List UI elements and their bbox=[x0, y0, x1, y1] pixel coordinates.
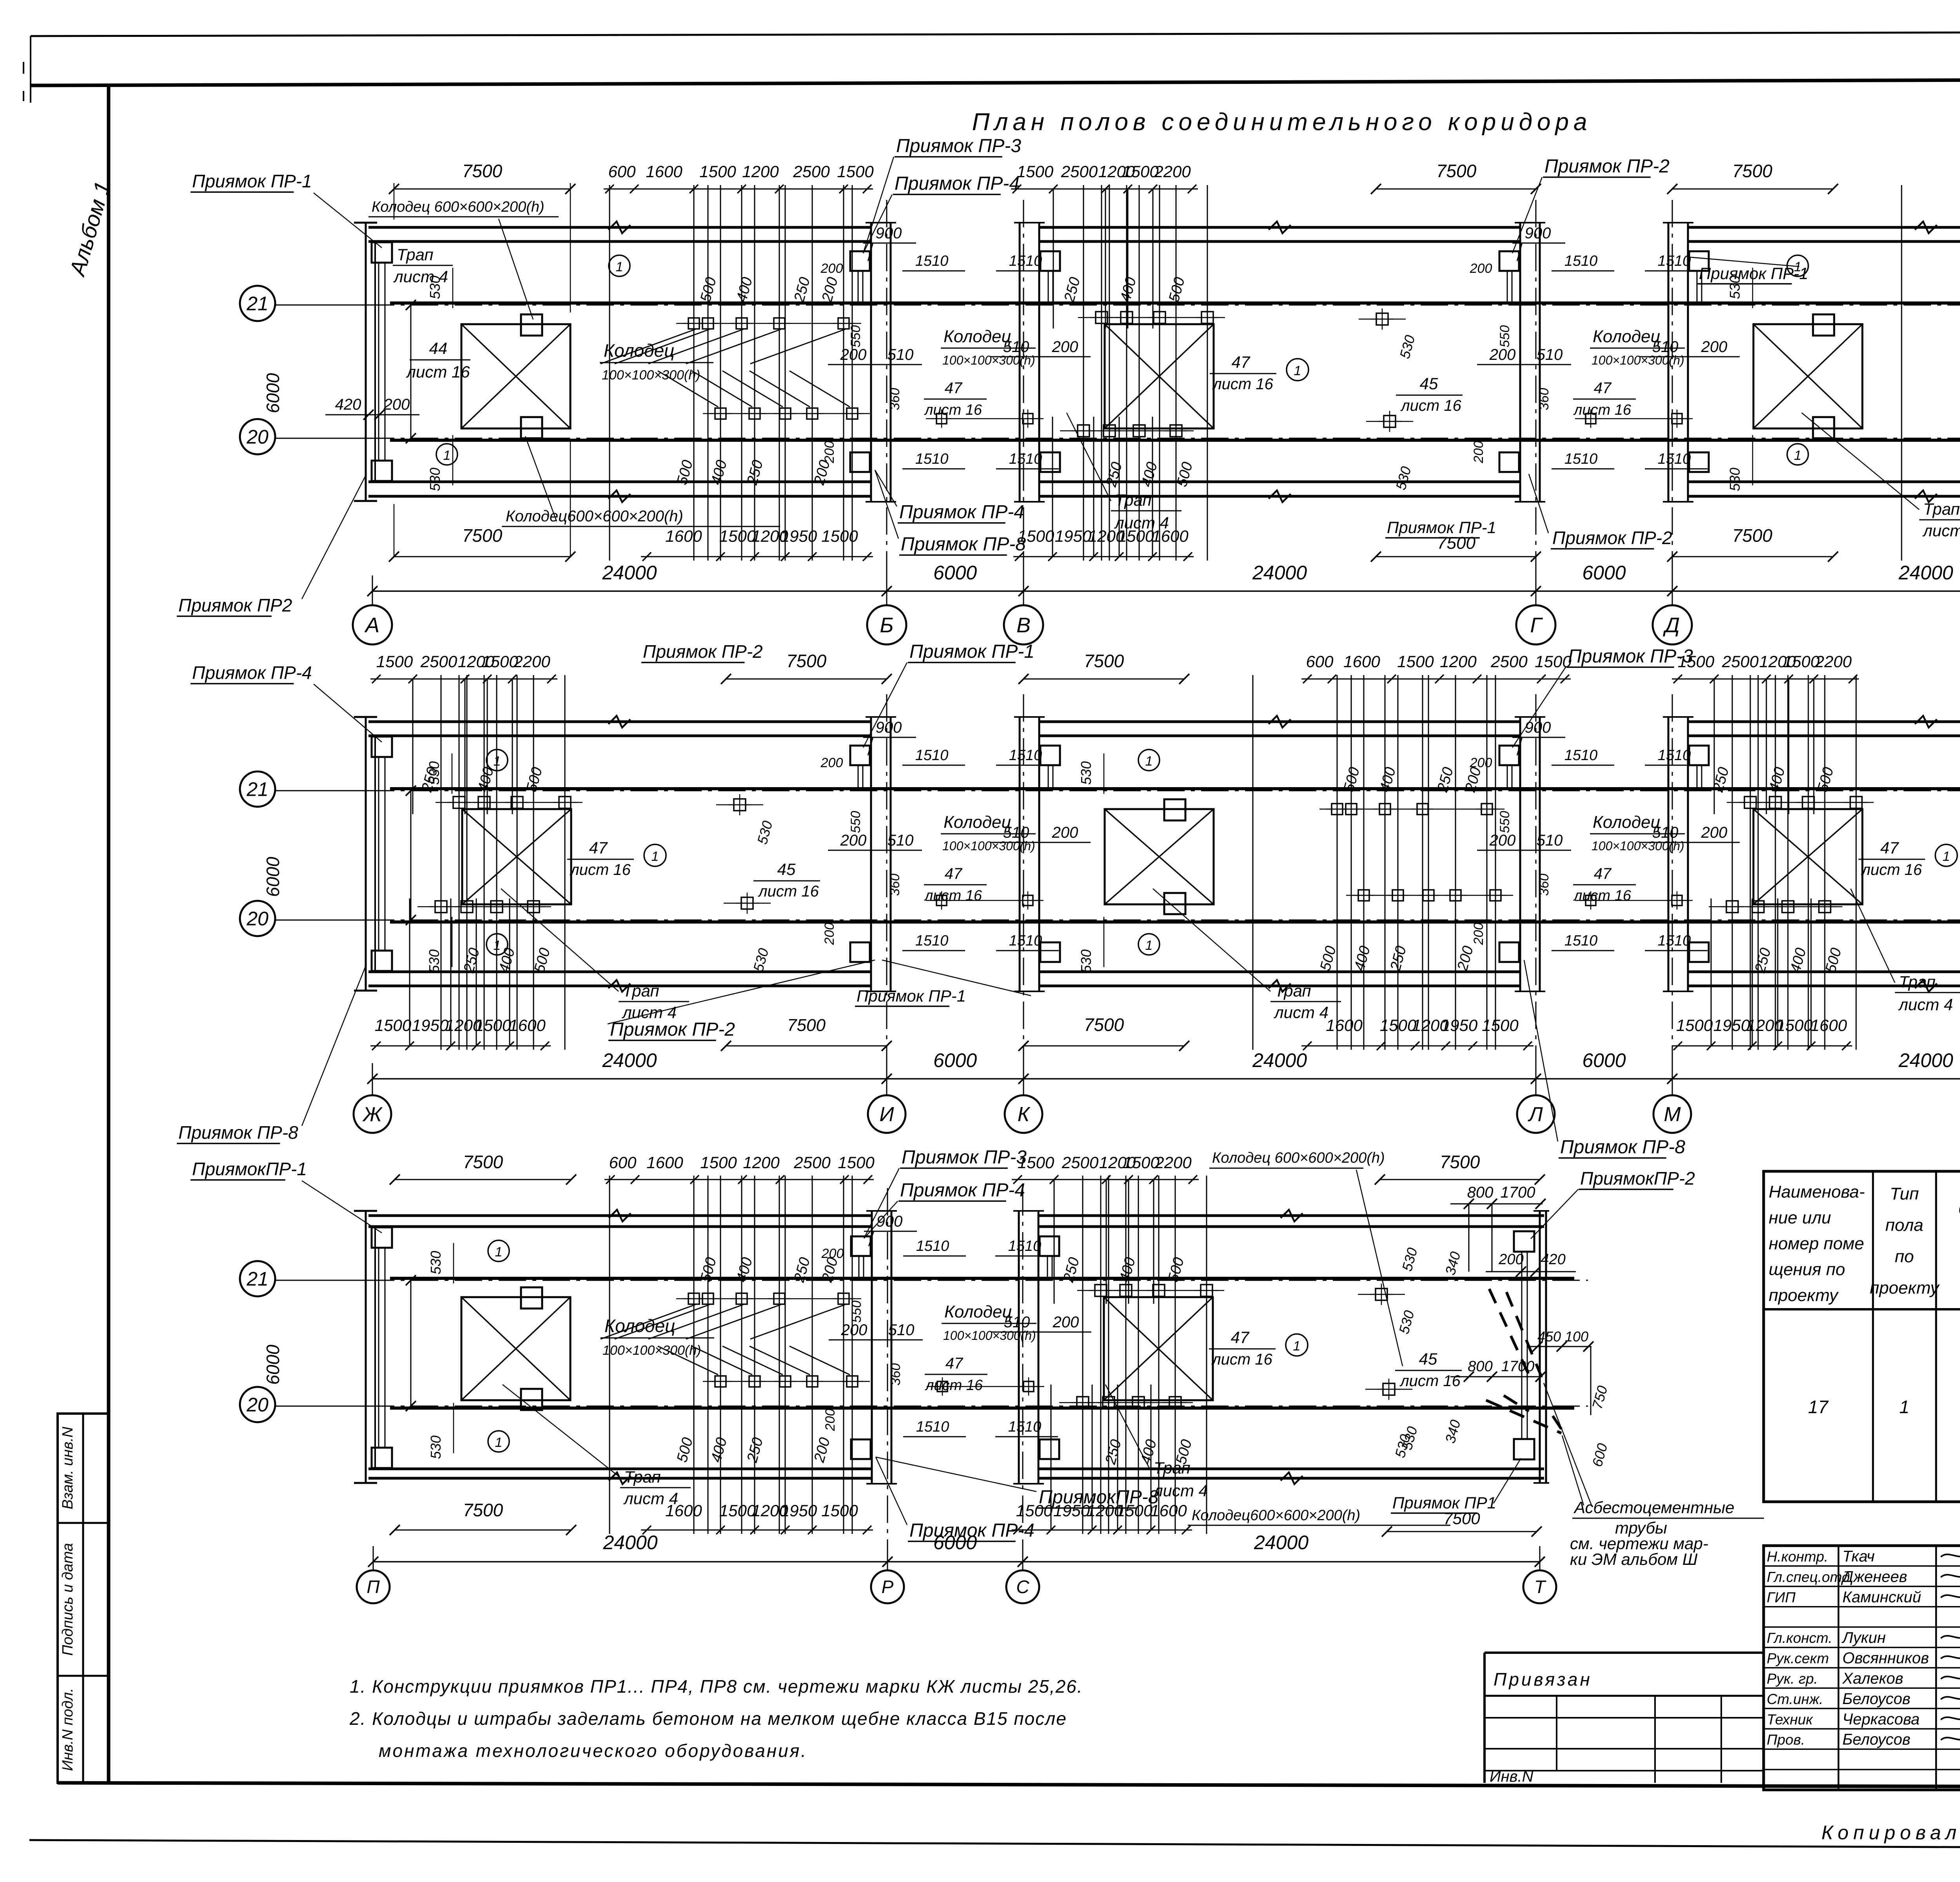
circled 1 mark bottom bbox=[1138, 934, 1160, 955]
leader fan to kolodec label upper bbox=[601, 1305, 695, 1339]
svg-text:проекту: проекту bbox=[1870, 1278, 1940, 1298]
grid axis circle 20 bbox=[240, 1387, 275, 1422]
svg-text:200: 200 bbox=[820, 755, 843, 770]
svg-text:24000: 24000 bbox=[1252, 562, 1307, 584]
svg-text:1500: 1500 bbox=[1118, 527, 1154, 545]
kolodec squares pair in crossing bbox=[1586, 895, 1596, 906]
axis 21 dash-dot centerline bbox=[279, 305, 1960, 306]
strip1 top small chain bay V bbox=[1011, 189, 1198, 190]
kolodec square on pit top edge bbox=[1164, 799, 1185, 820]
svg-text:100×100×300(h): 100×100×300(h) bbox=[603, 1343, 701, 1358]
svg-text:7500: 7500 bbox=[1732, 525, 1773, 546]
svg-text:лист 16: лист 16 bbox=[925, 1377, 983, 1394]
svg-text:Приямок ПР-1: Приямок ПР-1 bbox=[1699, 264, 1808, 283]
kolodec squares pair in crossing bbox=[936, 414, 947, 424]
svg-text:Привязан: Привязан bbox=[1494, 1669, 1592, 1690]
corridor south outer wall double line bbox=[1689, 481, 1960, 483]
svg-text:360: 360 bbox=[888, 1363, 903, 1386]
svg-text:1500: 1500 bbox=[1678, 652, 1715, 671]
svg-text:550: 550 bbox=[1497, 811, 1512, 833]
svg-text:2200: 2200 bbox=[1154, 1153, 1192, 1172]
kolodec square pair 530 lower bbox=[1384, 416, 1396, 427]
svg-text:900: 900 bbox=[1525, 719, 1551, 736]
strip2 bottom chain mid bbox=[1301, 1045, 1534, 1047]
circled 1 mark top bbox=[486, 750, 508, 771]
svg-text:Приямок ПР-4: Приямок ПР-4 bbox=[895, 173, 1020, 194]
svg-text:Колодец: Колодец bbox=[604, 340, 675, 361]
grid axis circle Ж bbox=[354, 1095, 391, 1133]
svg-text:1510: 1510 bbox=[916, 1238, 949, 1254]
grid axis circle 21 bbox=[240, 286, 275, 321]
circled 1 mark bottom bbox=[486, 934, 508, 955]
svg-text:Р: Р bbox=[882, 1577, 894, 1597]
svg-text:Приямок ПР-4: Приямок ПР-4 bbox=[899, 502, 1024, 523]
svg-text:лист 16: лист 16 bbox=[405, 363, 470, 381]
wall face line on axis 21 bbox=[390, 301, 1960, 305]
priamok square at wall bottom bbox=[850, 942, 870, 962]
west end wall bbox=[365, 223, 367, 501]
svg-text:530: 530 bbox=[1727, 468, 1743, 491]
strip1 top dim 7500 before G bbox=[1376, 189, 1536, 190]
svg-text:2200: 2200 bbox=[1154, 162, 1191, 181]
transverse greenhouse wall at axis x=3918 bbox=[1519, 223, 1521, 502]
svg-text:6000: 6000 bbox=[263, 857, 283, 897]
privyazan table bbox=[1485, 1652, 1764, 1654]
strip3 bottom chain bay P bbox=[641, 1530, 873, 1531]
svg-text:1510: 1510 bbox=[1008, 1419, 1042, 1435]
svg-text:550: 550 bbox=[848, 325, 863, 348]
grid axis circle Р bbox=[871, 1570, 904, 1603]
svg-text:7500: 7500 bbox=[1084, 1015, 1124, 1035]
svg-text:900: 900 bbox=[876, 719, 902, 736]
vertical dim 6000 between axes 21 20 bbox=[410, 1280, 412, 1406]
svg-text:1500: 1500 bbox=[1017, 162, 1054, 181]
svg-text:2200: 2200 bbox=[1815, 652, 1852, 671]
strip2 top chain bay M bbox=[1672, 679, 1859, 680]
svg-text:24000: 24000 bbox=[1254, 1532, 1308, 1554]
svg-text:Ж: Ж bbox=[362, 1103, 383, 1126]
svg-text:1: 1 bbox=[494, 754, 501, 769]
svg-text:Рук.сект: Рук.сект bbox=[1767, 1650, 1829, 1666]
svg-text:2500: 2500 bbox=[1062, 1153, 1099, 1172]
svg-text:лист 16: лист 16 bbox=[1861, 861, 1922, 878]
axis 20 dash-dot centerline bbox=[279, 920, 1960, 921]
svg-text:Тип: Тип bbox=[1890, 1184, 1919, 1203]
signature squiggle bbox=[1941, 1736, 1960, 1740]
axis 20 leader from circle bbox=[275, 438, 368, 439]
trap square upper west bbox=[372, 242, 392, 263]
svg-text:1: 1 bbox=[1794, 448, 1802, 463]
strip3 top dim 7500 bay P bbox=[395, 1179, 571, 1180]
priamok square at wall bottom bbox=[1040, 452, 1060, 472]
svg-text:Колодец 600×600×200(h): Колодец 600×600×200(h) bbox=[372, 199, 544, 215]
svg-text:17: 17 bbox=[1808, 1397, 1829, 1417]
kolodec squares pair in crossing bbox=[936, 895, 947, 906]
svg-text:Взам. инв.N: Взам. инв.N bbox=[60, 1426, 76, 1509]
kolodec small squares row upper bbox=[1332, 804, 1343, 815]
svg-text:Приямок ПР-8: Приямок ПР-8 bbox=[1560, 1137, 1685, 1158]
svg-text:200: 200 bbox=[1489, 346, 1516, 363]
svg-text:100×100×300(h): 100×100×300(h) bbox=[602, 368, 700, 383]
kolodec small squares row upper bbox=[688, 318, 699, 329]
axis witness line to circle bbox=[372, 575, 373, 605]
corridor south outer wall double line bbox=[1040, 481, 1519, 483]
circled 1 mark top bbox=[1787, 255, 1808, 276]
svg-text:900: 900 bbox=[1525, 225, 1551, 242]
svg-text:1: 1 bbox=[1145, 754, 1153, 769]
svg-text:600: 600 bbox=[1306, 652, 1334, 671]
pit crossed box (priyamok) bbox=[461, 1297, 570, 1400]
left edge tick marks bbox=[30, 36, 31, 103]
svg-text:7500: 7500 bbox=[1436, 161, 1477, 181]
strip3 top chain bay S bbox=[1012, 1179, 1199, 1180]
svg-text:Белоусов: Белоусов bbox=[1842, 1690, 1911, 1708]
signature squiggle bbox=[1941, 1634, 1960, 1638]
kolodec small squares row lower bbox=[715, 1376, 726, 1387]
kolodec small squares on pit top edge bbox=[1095, 1285, 1107, 1296]
svg-text:Трап: Трап bbox=[1154, 1459, 1191, 1477]
svg-text:47: 47 bbox=[1880, 838, 1899, 857]
svg-text:1: 1 bbox=[616, 260, 623, 274]
strip1 bottom chain bay V bbox=[1013, 556, 1194, 557]
wall face line on axis 20 bbox=[390, 920, 1960, 924]
svg-text:ГИП: ГИП bbox=[1767, 1589, 1796, 1605]
priamok square at wall top bbox=[1499, 251, 1519, 271]
svg-text:1: 1 bbox=[1293, 1339, 1301, 1354]
svg-text:1600: 1600 bbox=[1150, 1501, 1187, 1520]
svg-text:45: 45 bbox=[1420, 374, 1438, 393]
svg-text:1700: 1700 bbox=[1501, 1184, 1535, 1201]
svg-text:Приямок ПР-2: Приямок ПР-2 bbox=[1544, 156, 1670, 177]
overall dimension line bbox=[372, 1078, 1960, 1080]
corridor south outer wall double line bbox=[368, 481, 870, 483]
svg-text:1500: 1500 bbox=[838, 1153, 875, 1172]
svg-text:1500: 1500 bbox=[1123, 1153, 1160, 1172]
trap square lower west bbox=[372, 951, 392, 971]
kolodec squares pair in crossing bbox=[1586, 414, 1596, 424]
strip3 bottom dim 7500 bay P bbox=[395, 1530, 571, 1531]
svg-text:1500: 1500 bbox=[700, 1153, 737, 1172]
witness vertical lines through corridor bbox=[1901, 185, 1902, 561]
svg-text:1500: 1500 bbox=[1380, 1016, 1417, 1034]
witness verticals type B bay bbox=[1101, 185, 1102, 561]
svg-text:1950: 1950 bbox=[1055, 527, 1092, 545]
svg-text:1600: 1600 bbox=[1152, 527, 1189, 545]
sheet outer top edge line bbox=[31, 31, 1960, 36]
strip3 east end wall bbox=[1539, 1211, 1541, 1483]
svg-text:1: 1 bbox=[1145, 938, 1153, 953]
svg-text:1510: 1510 bbox=[1564, 451, 1598, 467]
strip3 east trap square upper bbox=[1514, 1231, 1534, 1252]
corridor north outer wall double line bbox=[1689, 226, 1960, 229]
svg-text:200: 200 bbox=[383, 396, 410, 413]
corridor north outer wall double line bbox=[368, 1214, 871, 1217]
axis 20 leader from circle bbox=[275, 920, 368, 921]
svg-text:21: 21 bbox=[246, 779, 269, 800]
svg-text:1500: 1500 bbox=[1676, 1016, 1713, 1034]
corridor north outer wall double line bbox=[368, 226, 870, 229]
svg-text:550: 550 bbox=[1497, 325, 1512, 348]
west end wall bbox=[365, 717, 367, 991]
transverse greenhouse wall at axis x=4266 bbox=[1668, 223, 1670, 502]
priamok square at wall bottom bbox=[1499, 452, 1519, 472]
kolodec square on pit top edge bbox=[521, 1287, 542, 1309]
vertical dim 6000 between axes 21 20 bbox=[410, 305, 412, 438]
svg-text:Колодец: Колодец bbox=[604, 1316, 675, 1336]
sheet bottom outer edge line bbox=[29, 1840, 1960, 1849]
axis witness line to circle bbox=[1022, 1546, 1024, 1570]
grid axis circle К bbox=[1005, 1095, 1042, 1133]
svg-text:лист 4: лист 4 bbox=[393, 267, 448, 286]
corridor north outer wall double line bbox=[1040, 226, 1519, 229]
svg-text:Приямок ПР2: Приямок ПР2 bbox=[178, 595, 292, 615]
svg-text:200: 200 bbox=[1470, 261, 1492, 276]
left margin stamp boxes bbox=[58, 1414, 109, 1783]
svg-text:1200: 1200 bbox=[742, 162, 779, 181]
svg-text:1600: 1600 bbox=[646, 1153, 683, 1172]
priamok square at wall bottom bbox=[1499, 942, 1519, 962]
witness vertical lines through corridor bbox=[1252, 675, 1254, 1050]
strip1 bottom chain bay A bbox=[641, 556, 873, 557]
axis witness line to circle bbox=[373, 1546, 374, 1570]
priamok square at wall bottom bbox=[1689, 942, 1709, 962]
priamok square at wall top bbox=[1499, 746, 1519, 765]
strip3 east trap stem double line bbox=[1521, 1252, 1523, 1439]
svg-text:47: 47 bbox=[589, 838, 608, 857]
svg-text:ки ЭМ альбом Ш: ки ЭМ альбом Ш bbox=[1570, 1550, 1698, 1568]
kolodec square on pit bottom edge bbox=[1164, 893, 1185, 914]
trap square upper west bbox=[372, 1227, 392, 1248]
svg-text:Колодец600×600×200(h): Колодец600×600×200(h) bbox=[1192, 1507, 1360, 1524]
svg-text:Приямок ПР-2: Приямок ПР-2 bbox=[610, 1019, 735, 1040]
svg-text:1510: 1510 bbox=[1008, 1238, 1042, 1254]
svg-text:200: 200 bbox=[1701, 338, 1728, 356]
svg-text:Рук. гр.: Рук. гр. bbox=[1767, 1671, 1818, 1687]
svg-text:1500: 1500 bbox=[1783, 652, 1820, 671]
grid axis circle И bbox=[868, 1095, 906, 1133]
svg-text:Колодец: Колодец bbox=[944, 813, 1011, 832]
svg-text:1500: 1500 bbox=[837, 162, 874, 181]
svg-text:530: 530 bbox=[428, 1436, 444, 1459]
kolodec square pair 530 upper bbox=[1376, 313, 1388, 325]
svg-text:45: 45 bbox=[1419, 1350, 1437, 1368]
svg-text:7500: 7500 bbox=[463, 1500, 503, 1520]
svg-text:200: 200 bbox=[820, 261, 843, 276]
grid axis circle 20 bbox=[240, 901, 275, 936]
corridor south outer wall double line bbox=[1040, 971, 1519, 973]
circled 1 mark bottom bbox=[1787, 444, 1808, 465]
kolodec square on pit top edge bbox=[1813, 314, 1834, 336]
svg-text:550: 550 bbox=[849, 1301, 864, 1323]
svg-text:Наименова-: Наименова- bbox=[1769, 1182, 1865, 1201]
svg-text:Приямок ПР-8: Приямок ПР-8 bbox=[178, 1122, 298, 1143]
svg-text:1510: 1510 bbox=[1658, 451, 1691, 467]
corridor north outer wall double line bbox=[1039, 1214, 1544, 1217]
svg-text:1510: 1510 bbox=[915, 747, 949, 764]
axis 21 leader from circle bbox=[275, 790, 368, 791]
svg-text:Трап: Трап bbox=[1899, 973, 1936, 991]
svg-text:200: 200 bbox=[1053, 1314, 1079, 1331]
svg-text:360: 360 bbox=[1537, 874, 1552, 896]
svg-text:7500: 7500 bbox=[1732, 161, 1773, 181]
wall face line on axis 21 bbox=[390, 787, 1960, 790]
kolodec square pair 530 lower bbox=[741, 897, 753, 909]
svg-text:200: 200 bbox=[1701, 824, 1728, 841]
svg-text:Л: Л bbox=[1528, 1103, 1543, 1126]
svg-text:Н.контр.: Н.контр. bbox=[1767, 1548, 1828, 1564]
svg-text:Каминский: Каминский bbox=[1842, 1588, 1921, 1606]
priamok square at wall top bbox=[850, 251, 870, 271]
svg-text:6000: 6000 bbox=[1582, 1049, 1626, 1071]
svg-text:510: 510 bbox=[887, 346, 914, 363]
svg-text:530: 530 bbox=[428, 1251, 444, 1274]
grid axis circle В bbox=[1004, 605, 1043, 644]
witness verticals type B bay bbox=[1750, 675, 1751, 1050]
svg-text:Приямок ПР-4: Приямок ПР-4 bbox=[900, 1180, 1025, 1201]
svg-text:360: 360 bbox=[887, 874, 902, 896]
svg-text:1500: 1500 bbox=[719, 1501, 756, 1520]
axis 21 leader from circle bbox=[275, 1280, 368, 1281]
svg-text:200: 200 bbox=[1052, 824, 1078, 841]
wall face line on axis 20 bbox=[390, 439, 1960, 442]
svg-text:1: 1 bbox=[494, 938, 501, 953]
svg-text:550: 550 bbox=[848, 811, 863, 833]
kolodec square on pit bottom edge bbox=[521, 1389, 542, 1410]
overall dimension line bbox=[373, 1561, 1540, 1563]
svg-text:Приямок ПР-3: Приямок ПР-3 bbox=[902, 1147, 1027, 1168]
svg-text:Трап: Трап bbox=[622, 982, 659, 1000]
priamok square at wall top bbox=[1040, 1236, 1059, 1256]
svg-text:1510: 1510 bbox=[915, 253, 949, 269]
svg-text:Колодец: Колодец bbox=[1593, 813, 1661, 832]
grid axis circle М bbox=[1653, 1095, 1691, 1133]
kolodec square pair 530 lower bbox=[1383, 1383, 1395, 1395]
svg-text:1: 1 bbox=[1943, 849, 1950, 864]
svg-text:47: 47 bbox=[945, 379, 963, 397]
svg-text:ПриямокПР-2: ПриямокПР-2 bbox=[1580, 1168, 1695, 1189]
svg-text:Приямок ПР-3: Приямок ПР-3 bbox=[1568, 646, 1693, 667]
svg-text:Приямок ПР-4: Приямок ПР-4 bbox=[192, 662, 312, 683]
svg-text:1500: 1500 bbox=[475, 1016, 512, 1034]
svg-text:200: 200 bbox=[840, 832, 867, 849]
frame bottom thick line bbox=[58, 1783, 1960, 1788]
svg-text:Трап: Трап bbox=[1274, 982, 1311, 1000]
explication table frame bbox=[1764, 1171, 1960, 1502]
svg-text:24000: 24000 bbox=[603, 1532, 657, 1554]
strip1 bottom dim 7500 bay D bbox=[1672, 556, 1833, 557]
svg-text:Овсянников: Овсянников bbox=[1842, 1650, 1929, 1667]
svg-text:щения по: щения по bbox=[1769, 1260, 1845, 1279]
svg-text:Трап: Трап bbox=[624, 1468, 661, 1486]
signature squiggle bbox=[1941, 1675, 1960, 1679]
grid axis circle 21 bbox=[240, 1261, 275, 1296]
circled 1 mark top bbox=[1138, 750, 1160, 771]
svg-text:7500: 7500 bbox=[1437, 534, 1475, 553]
svg-text:2. Колодцы и штрабы заделать б: 2. Колодцы и штрабы заделать бетоном на … bbox=[349, 1708, 1067, 1729]
transverse greenhouse wall at axis x=4266 bbox=[1668, 717, 1670, 991]
axis witness line to circle bbox=[1023, 1063, 1024, 1095]
leader fan to kolodec label lower bbox=[658, 1346, 718, 1375]
grid axis circle С bbox=[1006, 1570, 1039, 1603]
svg-text:2500: 2500 bbox=[1061, 162, 1098, 181]
svg-text:В: В bbox=[1016, 613, 1031, 637]
svg-text:47: 47 bbox=[945, 865, 963, 882]
svg-text:Приямок ПР-2: Приямок ПР-2 bbox=[643, 641, 763, 662]
corridor south outer wall double line bbox=[368, 971, 870, 973]
circled 1 mark top bbox=[488, 1240, 509, 1261]
svg-text:420: 420 bbox=[335, 396, 361, 413]
svg-text:лист 4: лист 4 bbox=[1152, 1481, 1208, 1500]
corridor south outer wall double line bbox=[1039, 1468, 1544, 1470]
axis dash-dot verticals at crossing bbox=[886, 694, 887, 1091]
svg-text:6000: 6000 bbox=[263, 373, 283, 413]
signature squiggle bbox=[1941, 1654, 1960, 1659]
svg-text:800: 800 bbox=[1468, 1358, 1492, 1375]
svg-text:Дженеев: Дженеев bbox=[1841, 1568, 1907, 1585]
svg-text:600: 600 bbox=[609, 1153, 637, 1172]
svg-text:Приямок ПР-1: Приямок ПР-1 bbox=[192, 171, 312, 191]
svg-text:1600: 1600 bbox=[665, 527, 702, 545]
kolodec square on pit top edge bbox=[521, 314, 542, 336]
svg-text:лист 4: лист 4 bbox=[1898, 995, 1953, 1014]
pit crossed box (priyamok) bbox=[462, 809, 571, 904]
axis witness line to circle bbox=[1539, 1546, 1541, 1570]
svg-text:20: 20 bbox=[246, 426, 269, 448]
signature squiggle bbox=[1941, 1695, 1960, 1699]
svg-text:2500: 2500 bbox=[793, 162, 830, 181]
svg-text:К: К bbox=[1018, 1103, 1031, 1126]
svg-text:1500: 1500 bbox=[375, 1016, 412, 1034]
svg-text:Инв.N подл.: Инв.N подл. bbox=[60, 1688, 76, 1771]
svg-text:Приямок ПР-3: Приямок ПР-3 bbox=[896, 136, 1021, 156]
svg-text:44: 44 bbox=[429, 339, 448, 358]
transverse greenhouse wall at axis x=3918 bbox=[1519, 717, 1521, 991]
leader fan to kolodec label lower bbox=[658, 371, 718, 407]
svg-text:1: 1 bbox=[1294, 363, 1301, 378]
svg-text:7500: 7500 bbox=[463, 1152, 503, 1172]
svg-text:1510: 1510 bbox=[1009, 933, 1042, 949]
strip2 top dim 7500 before I bbox=[726, 679, 887, 680]
svg-text:1510: 1510 bbox=[1564, 933, 1598, 949]
strip2 top chain mid bbox=[1301, 679, 1571, 680]
svg-text:200: 200 bbox=[1498, 1251, 1523, 1268]
svg-text:номер поме: номер поме bbox=[1769, 1234, 1864, 1253]
svg-text:1510: 1510 bbox=[915, 933, 949, 949]
svg-text:Асбестоцементные: Асбестоцементные bbox=[1573, 1498, 1734, 1517]
svg-text:24000: 24000 bbox=[1898, 562, 1953, 584]
svg-text:1500: 1500 bbox=[1018, 527, 1054, 545]
corridor south outer wall double line bbox=[1689, 971, 1960, 973]
svg-text:М: М bbox=[1664, 1103, 1681, 1126]
vertical dim 6000 between axes 21 20 bbox=[410, 791, 412, 920]
axis dash-dot verticals at crossing bbox=[887, 1188, 888, 1564]
svg-text:1950: 1950 bbox=[1053, 1501, 1090, 1520]
svg-text:лист 16: лист 16 bbox=[924, 887, 982, 904]
svg-text:1500: 1500 bbox=[1397, 652, 1434, 671]
svg-text:200: 200 bbox=[821, 1246, 844, 1261]
priamok square at wall bottom bbox=[1689, 452, 1709, 472]
svg-text:7500: 7500 bbox=[786, 651, 827, 671]
svg-text:47: 47 bbox=[1594, 865, 1612, 882]
corridor north outer wall double line bbox=[1689, 720, 1960, 723]
svg-text:100: 100 bbox=[1565, 1328, 1588, 1345]
svg-text:200: 200 bbox=[840, 346, 867, 363]
overall dimension line bbox=[372, 590, 1960, 592]
priamok square at wall bottom bbox=[850, 452, 870, 472]
witness vertical lines through corridor bbox=[609, 1176, 610, 1534]
svg-text:1500: 1500 bbox=[1116, 1501, 1153, 1520]
svg-text:1500: 1500 bbox=[1482, 1016, 1519, 1034]
